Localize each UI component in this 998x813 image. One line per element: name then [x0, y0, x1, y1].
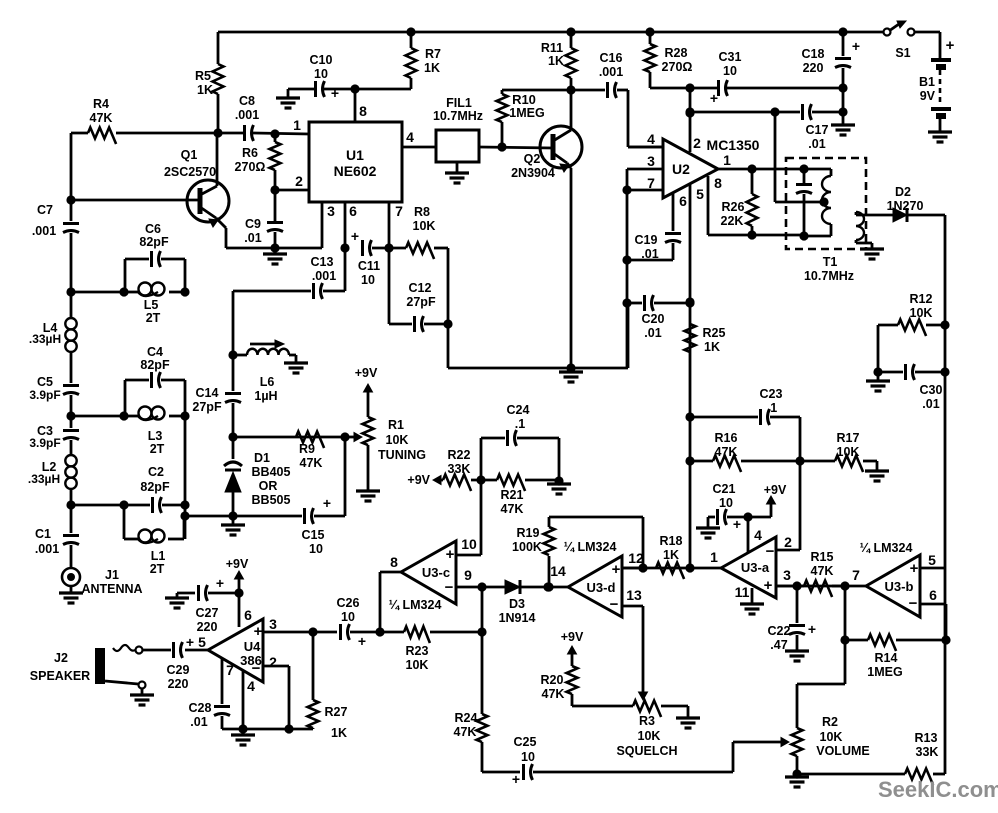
svg-text:9: 9 [464, 567, 472, 583]
svg-text:270Ω: 270Ω [235, 160, 266, 174]
svg-text:U4: U4 [244, 639, 261, 654]
svg-text:NE602: NE602 [334, 163, 377, 179]
svg-text:4: 4 [406, 129, 414, 145]
svg-text:11: 11 [735, 584, 750, 600]
svg-text:R3: R3 [639, 714, 655, 728]
svg-text:R7: R7 [425, 47, 441, 61]
svg-text:1: 1 [710, 549, 718, 565]
svg-text:C29: C29 [167, 663, 190, 677]
svg-text:U2: U2 [672, 161, 690, 177]
svg-text:ANTENNA: ANTENNA [81, 582, 142, 596]
svg-text:Q2: Q2 [524, 152, 541, 166]
svg-text:Q1: Q1 [181, 148, 198, 162]
svg-text:.001: .001 [312, 269, 336, 283]
svg-text:+: + [612, 561, 621, 578]
svg-text:+: + [910, 560, 919, 577]
svg-text:+9V: +9V [407, 473, 430, 487]
svg-text:6: 6 [929, 587, 937, 603]
svg-text:B1: B1 [919, 75, 935, 89]
svg-text:+: + [710, 90, 718, 106]
svg-text:10: 10 [521, 750, 535, 764]
svg-text:10: 10 [719, 496, 733, 510]
svg-text:13: 13 [626, 587, 642, 603]
svg-text:.01: .01 [644, 326, 661, 340]
svg-text:4: 4 [247, 678, 255, 694]
svg-text:D1: D1 [254, 451, 270, 465]
svg-text:C18: C18 [802, 47, 825, 61]
svg-text:VOLUME: VOLUME [816, 744, 869, 758]
svg-text:C4: C4 [147, 345, 163, 359]
svg-text:C25: C25 [514, 735, 537, 749]
svg-text:−: − [252, 660, 261, 677]
svg-text:+: + [254, 623, 263, 640]
svg-text:3: 3 [269, 616, 277, 632]
svg-text:2T: 2T [150, 442, 165, 456]
svg-text:SeekIC.com: SeekIC.com [878, 777, 998, 802]
svg-text:.01: .01 [808, 137, 825, 151]
svg-text:10: 10 [341, 610, 355, 624]
svg-text:.33µH: .33µH [29, 332, 61, 346]
svg-text:C23: C23 [760, 387, 783, 401]
svg-text:10K: 10K [638, 729, 661, 743]
svg-text:27pF: 27pF [192, 400, 222, 414]
svg-text:J1: J1 [105, 568, 119, 582]
svg-text:C21: C21 [713, 482, 736, 496]
svg-text:U3-b: U3-b [885, 579, 914, 594]
svg-text:4: 4 [647, 131, 655, 147]
svg-text:6: 6 [349, 203, 357, 219]
svg-text:SQUELCH: SQUELCH [616, 744, 677, 758]
svg-text:3.9pF: 3.9pF [29, 436, 60, 450]
svg-text:C30: C30 [920, 383, 943, 397]
svg-text:C14: C14 [196, 386, 219, 400]
svg-text:C15: C15 [302, 528, 325, 542]
svg-text:R13: R13 [915, 731, 938, 745]
svg-text:1MEG: 1MEG [867, 665, 902, 679]
svg-text:10: 10 [723, 64, 737, 78]
svg-text:¼ LM324: ¼ LM324 [860, 541, 913, 555]
svg-text:R11: R11 [541, 41, 563, 55]
svg-text:C2: C2 [148, 465, 164, 479]
svg-text:−: − [610, 596, 619, 613]
svg-text:6: 6 [244, 607, 252, 623]
svg-text:U3-c: U3-c [422, 565, 450, 580]
svg-text:S1: S1 [895, 46, 910, 60]
svg-text:R6: R6 [242, 146, 258, 160]
svg-text:3.9pF: 3.9pF [29, 388, 60, 402]
svg-text:5: 5 [928, 552, 936, 568]
svg-text:+9V: +9V [764, 483, 787, 497]
svg-text:C11: C11 [358, 259, 380, 273]
svg-text:R28: R28 [665, 46, 688, 60]
svg-text:R9: R9 [299, 442, 315, 456]
svg-text:10K: 10K [413, 219, 436, 233]
svg-text:C9: C9 [245, 217, 261, 231]
svg-text:220: 220 [168, 677, 189, 691]
svg-text:7: 7 [852, 567, 860, 583]
svg-text:2: 2 [269, 654, 277, 670]
svg-text:R2: R2 [822, 715, 838, 729]
svg-text:C27: C27 [196, 606, 219, 620]
svg-text:47K: 47K [454, 725, 477, 739]
svg-text:R15: R15 [811, 550, 834, 564]
svg-text:R25: R25 [703, 326, 726, 340]
svg-text:R10: R10 [512, 92, 536, 107]
svg-text:.1: .1 [515, 417, 525, 431]
svg-text:R14: R14 [875, 651, 898, 665]
svg-text:+: + [323, 495, 331, 511]
svg-text:2N3904: 2N3904 [511, 166, 555, 180]
svg-text:.001: .001 [599, 65, 623, 79]
svg-text:5: 5 [198, 634, 206, 650]
svg-text:82pF: 82pF [140, 480, 170, 494]
svg-text:22K: 22K [721, 214, 744, 228]
svg-text:R23: R23 [406, 644, 429, 658]
svg-text:8: 8 [714, 175, 722, 191]
svg-text:R17: R17 [837, 431, 860, 445]
svg-text:10: 10 [314, 67, 328, 81]
svg-text:R26: R26 [722, 200, 745, 214]
svg-text:14: 14 [550, 563, 566, 579]
svg-text:+: + [733, 516, 741, 532]
svg-text:1: 1 [723, 152, 731, 168]
svg-text:BB505: BB505 [252, 493, 291, 507]
svg-text:7: 7 [226, 662, 234, 678]
svg-text:1K: 1K [331, 726, 347, 740]
svg-text:.1: .1 [767, 401, 777, 415]
svg-text:R4: R4 [93, 97, 109, 111]
svg-text:D2: D2 [895, 185, 911, 199]
svg-text:D3: D3 [509, 597, 525, 611]
svg-text:1N270: 1N270 [887, 199, 924, 213]
svg-text:.001: .001 [35, 542, 59, 556]
svg-text:7: 7 [647, 175, 655, 191]
svg-text:9V: 9V [920, 89, 936, 103]
svg-text:C10: C10 [310, 53, 333, 67]
svg-text:R8: R8 [414, 205, 430, 219]
svg-text:FIL1: FIL1 [446, 96, 472, 110]
svg-text:6: 6 [679, 193, 687, 209]
svg-text:10K: 10K [837, 445, 860, 459]
svg-text:SPEAKER: SPEAKER [30, 669, 90, 683]
svg-text:J2: J2 [54, 651, 68, 665]
svg-text:8: 8 [390, 554, 398, 570]
svg-text:82pF: 82pF [140, 358, 170, 372]
svg-text:.33µH: .33µH [28, 472, 60, 486]
svg-text:2SC2570: 2SC2570 [164, 165, 216, 179]
svg-text:T1: T1 [823, 255, 838, 269]
svg-text:C20: C20 [642, 312, 665, 326]
svg-text:R5: R5 [195, 69, 211, 83]
svg-text:R19: R19 [517, 526, 540, 540]
svg-text:.01: .01 [190, 715, 207, 729]
svg-text:+: + [216, 575, 224, 591]
svg-text:+: + [764, 577, 773, 594]
svg-text:C31: C31 [719, 50, 742, 64]
svg-text:−: − [909, 595, 918, 612]
svg-text:.01: .01 [922, 397, 939, 411]
svg-text:OR: OR [259, 479, 278, 493]
svg-text:+: + [186, 634, 194, 650]
svg-text:C7: C7 [37, 203, 53, 217]
svg-text:C24: C24 [507, 403, 530, 417]
svg-text:TUNING: TUNING [378, 448, 426, 462]
svg-text:10.7MHz: 10.7MHz [433, 109, 483, 123]
svg-text:1K: 1K [704, 340, 720, 354]
svg-text:C12: C12 [409, 281, 432, 295]
svg-text:.47: .47 [770, 638, 787, 652]
svg-text:R16: R16 [715, 431, 738, 445]
svg-text:100K: 100K [512, 540, 542, 554]
svg-text:+: + [852, 38, 860, 54]
svg-text:1K: 1K [548, 54, 564, 68]
svg-text:C28: C28 [189, 701, 212, 715]
svg-text:47K: 47K [90, 111, 113, 125]
svg-text:R20: R20 [541, 673, 564, 687]
svg-text:U1: U1 [346, 147, 364, 163]
svg-text:R27: R27 [325, 705, 348, 719]
svg-text:L3: L3 [148, 429, 163, 443]
svg-text:+: + [946, 37, 955, 54]
svg-text:2: 2 [693, 135, 701, 151]
svg-text:C19: C19 [635, 233, 658, 247]
svg-text:.01: .01 [641, 247, 658, 261]
svg-text:−: − [445, 579, 454, 596]
svg-text:3: 3 [647, 153, 655, 169]
svg-text:C1: C1 [35, 527, 51, 541]
svg-text:220: 220 [197, 620, 218, 634]
svg-text:3: 3 [327, 203, 335, 219]
svg-text:U3-a: U3-a [741, 560, 770, 575]
svg-text:L5: L5 [144, 298, 159, 312]
svg-text:33K: 33K [916, 745, 939, 759]
svg-text:R18: R18 [660, 534, 683, 548]
svg-text:C8: C8 [239, 94, 255, 108]
svg-text:C13: C13 [311, 255, 334, 269]
svg-text:BB405: BB405 [252, 465, 291, 479]
svg-text:R1: R1 [388, 418, 404, 432]
svg-text:2: 2 [784, 534, 792, 550]
svg-text:+: + [808, 621, 816, 637]
svg-text:C17: C17 [806, 123, 829, 137]
svg-text:C22: C22 [768, 624, 791, 638]
svg-text:+: + [358, 633, 366, 649]
svg-text:U3-d: U3-d [587, 580, 616, 595]
svg-text:.001: .001 [235, 108, 259, 122]
svg-text:L1: L1 [151, 549, 166, 563]
svg-text:33K: 33K [448, 462, 471, 476]
svg-text:82pF: 82pF [139, 235, 169, 249]
svg-text:.001: .001 [32, 224, 56, 238]
svg-text:3: 3 [783, 567, 791, 583]
svg-text:2T: 2T [146, 311, 161, 325]
svg-text:C6: C6 [145, 222, 161, 236]
svg-text:R21: R21 [501, 488, 524, 502]
svg-text:C16: C16 [600, 51, 623, 65]
svg-text:1N914: 1N914 [499, 611, 536, 625]
svg-text:R12: R12 [910, 292, 933, 306]
svg-text:47K: 47K [811, 564, 834, 578]
svg-text:R24: R24 [455, 711, 478, 725]
svg-text:+9V: +9V [355, 366, 378, 380]
svg-text:270Ω: 270Ω [662, 60, 693, 74]
svg-text:10K: 10K [406, 658, 429, 672]
svg-text:1MEG: 1MEG [509, 106, 544, 120]
svg-text:47K: 47K [501, 502, 524, 516]
svg-text:.01: .01 [244, 231, 261, 245]
svg-text:1: 1 [293, 117, 301, 133]
svg-text:+: + [351, 228, 359, 244]
svg-text:+9V: +9V [561, 630, 584, 644]
svg-text:+: + [512, 771, 520, 787]
svg-text:4: 4 [754, 527, 762, 543]
svg-text:7: 7 [395, 203, 403, 219]
svg-text:27pF: 27pF [406, 295, 436, 309]
svg-text:10K: 10K [820, 730, 843, 744]
svg-text:1µH: 1µH [254, 389, 277, 403]
svg-text:47K: 47K [715, 445, 738, 459]
svg-text:1K: 1K [197, 83, 213, 97]
svg-text:10: 10 [361, 273, 375, 287]
svg-text:−: − [766, 543, 775, 560]
svg-text:47K: 47K [542, 687, 565, 701]
svg-text:L6: L6 [260, 375, 275, 389]
svg-text:C26: C26 [337, 596, 360, 610]
svg-text:MC1350: MC1350 [707, 137, 760, 153]
svg-text:5: 5 [696, 186, 704, 202]
svg-text:47K: 47K [300, 456, 323, 470]
svg-text:10K: 10K [386, 433, 409, 447]
svg-text:220: 220 [803, 61, 824, 75]
svg-text:8: 8 [359, 103, 367, 119]
svg-text:2T: 2T [150, 562, 165, 576]
svg-text:10K: 10K [910, 306, 933, 320]
svg-text:¼ LM324: ¼ LM324 [389, 598, 442, 612]
svg-text:2: 2 [295, 173, 303, 189]
svg-text:R22: R22 [448, 448, 471, 462]
svg-text:+: + [331, 85, 339, 101]
svg-text:¼ LM324: ¼ LM324 [564, 540, 617, 554]
svg-text:1K: 1K [663, 548, 679, 562]
svg-text:+: + [446, 546, 455, 563]
svg-text:+9V: +9V [226, 557, 249, 571]
svg-text:C5: C5 [37, 375, 53, 389]
svg-text:10: 10 [309, 542, 323, 556]
svg-text:10.7MHz: 10.7MHz [804, 269, 854, 283]
svg-text:1K: 1K [424, 61, 440, 75]
svg-text:10: 10 [461, 536, 477, 552]
